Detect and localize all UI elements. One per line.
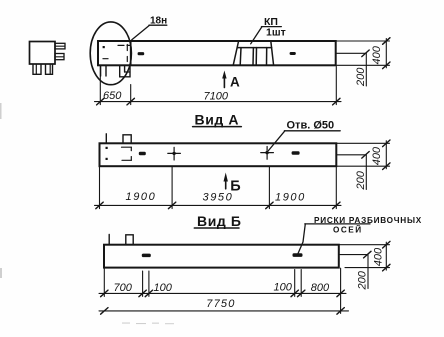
svg-text:Вид А: Вид А [195, 111, 240, 127]
view1 200 level line [336, 53, 366, 86]
view2 end dots [106, 147, 108, 149]
svg-text:ОСЕЙ: ОСЕЙ [333, 224, 363, 235]
view2 dash mark left [139, 152, 146, 155]
svg-text:1900: 1900 [126, 191, 157, 203]
leader riski [298, 224, 370, 254]
ticks dim row view1 [97, 98, 340, 105]
svg-text:3950: 3950 [203, 191, 234, 203]
svg-text:Отв. Ø50: Отв. Ø50 [287, 119, 335, 131]
svg-text:18н: 18н [150, 16, 167, 27]
view3 left tick above [108, 235, 110, 245]
view2 hole crosshair 2 [261, 147, 274, 160]
view3 tab above [126, 235, 133, 245]
svg-text:400: 400 [373, 247, 385, 266]
dim row view1 (650 / 7100) [95, 67, 342, 105]
view3 riska dash left [142, 254, 151, 258]
view2 hidden recess bracket [122, 147, 132, 160]
view1 right 400 dim [336, 39, 389, 68]
svg-text:РИСКИ РАЗБИВОЧНЫХ: РИСКИ РАЗБИВОЧНЫХ [314, 216, 422, 225]
view2 tab above [123, 135, 131, 144]
leader Otv [269, 131, 341, 151]
beam view1 recess end inner edge [130, 41, 132, 65]
svg-text:800: 800 [311, 282, 330, 294]
svg-text:7750: 7750 [206, 298, 235, 310]
svg-text:200: 200 [355, 67, 367, 87]
svg-text:200: 200 [357, 270, 369, 290]
beam view1 dash mark left [138, 52, 145, 55]
beam view2 outline [100, 143, 337, 166]
svg-text:100: 100 [154, 282, 173, 294]
arrow B [224, 173, 228, 189]
view2 200 level line [336, 155, 366, 190]
title underline [194, 227, 239, 229]
svg-text:700: 700 [114, 282, 133, 294]
svg-text:400: 400 [371, 146, 383, 165]
view2 right 400 dim [336, 141, 389, 169]
svg-text:А: А [230, 74, 240, 89]
section leg left [33, 64, 41, 74]
svg-text:650: 650 [103, 90, 122, 102]
section plate top [55, 43, 65, 49]
scan speckles [0, 103, 174, 324]
leader KP [251, 27, 282, 44]
svg-text:Вид Б: Вид Б [197, 213, 242, 229]
section leg right [46, 64, 53, 74]
view2 hole crosshair 1 [168, 147, 181, 160]
beam view1 outline [98, 41, 336, 65]
svg-text:200: 200 [355, 170, 367, 190]
view3 riska dash right [293, 253, 303, 257]
view2 dim row (1900/3950/1900) [95, 167, 342, 209]
title underline [193, 126, 242, 128]
beam view1 legs under left end [101, 65, 130, 77]
leader 18n [132, 25, 167, 40]
svg-text:400: 400 [371, 45, 383, 64]
section plate bottom [55, 54, 64, 60]
view2 left tick above [105, 134, 107, 144]
section arrow A [222, 71, 226, 88]
KP trapezoid detail [233, 41, 273, 65]
svg-text:Б: Б [230, 178, 240, 194]
recess hidden dashes [103, 45, 131, 62]
view2 dash mark right [292, 151, 300, 154]
svg-text:1900: 1900 [275, 191, 306, 203]
beam view3 outline [104, 245, 339, 268]
view3 right 400 dim [339, 242, 390, 270]
view3 dim row1 (700/100/100/800) [99, 268, 346, 313]
section square (left cross-section) [30, 42, 56, 65]
detail ellipse [90, 22, 131, 85]
svg-text:7100: 7100 [204, 91, 229, 103]
view3 200 level line [340, 255, 368, 289]
svg-text:1шт: 1шт [266, 27, 286, 39]
beam view1 dash mark right [290, 52, 296, 55]
view3 dim row2 (7750) [99, 310, 349, 312]
svg-text:100: 100 [274, 282, 293, 294]
